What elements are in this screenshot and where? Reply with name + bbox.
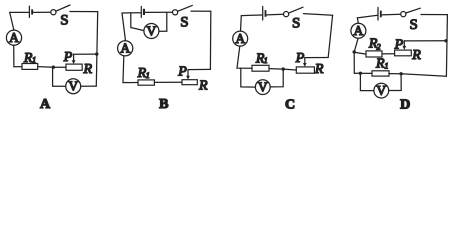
svg-text:R: R bbox=[314, 62, 324, 77]
slider arrow P (circuit A) bbox=[72, 54, 76, 64]
rheostat R (circuit D) bbox=[395, 50, 412, 56]
wire D R2 to left wire bbox=[354, 52, 366, 54]
node A bottom junction bbox=[52, 66, 55, 69]
wire D rheostat to R2 bbox=[382, 53, 395, 55]
switch S (circuit A) bbox=[51, 5, 70, 15]
wire A ammeter to top-left corner bbox=[10, 12, 14, 30]
switch S (circuit B) bbox=[173, 5, 193, 15]
node A right junction bbox=[95, 52, 98, 55]
ammeter A (circuit D) bbox=[351, 23, 366, 38]
svg-text:S: S bbox=[180, 14, 188, 30]
svg-text:R: R bbox=[198, 78, 208, 93]
wire C voltmeter branch left bbox=[241, 68, 256, 87]
wire B voltmeter branch left bbox=[131, 13, 144, 31]
wire B switch to top-right corner bbox=[191, 10, 211, 12]
switch S (circuit C) bbox=[284, 7, 304, 17]
wire B slider tap bbox=[188, 68, 210, 70]
wire D battery to switch bbox=[382, 13, 401, 16]
slider arrow P (circuit C) bbox=[303, 58, 307, 67]
battery B bbox=[141, 7, 145, 18]
wire C switch to top-right corner bbox=[304, 14, 333, 16]
switch S (circuit D) bbox=[401, 8, 421, 17]
wire A switch to top-right corner bbox=[70, 11, 98, 13]
resistor R1 (circuit B) bbox=[138, 80, 154, 85]
rheostat R (circuit B) bbox=[182, 80, 197, 85]
node C junction bbox=[282, 67, 285, 70]
wire C right side bbox=[328, 15, 332, 57]
wire D voltmeter branch right bbox=[389, 74, 402, 91]
svg-text:R: R bbox=[83, 62, 93, 77]
wire C slider tap bbox=[305, 57, 328, 59]
node D voltmeter right junction bbox=[399, 72, 402, 75]
resistor R1 (circuit C) bbox=[252, 65, 269, 71]
svg-text:A: A bbox=[235, 31, 245, 46]
label R2 (circuit D) bbox=[368, 36, 381, 51]
wire A top-left to battery bbox=[10, 11, 29, 13]
svg-text:V: V bbox=[68, 79, 78, 94]
wire B ammeter to top-left corner bbox=[122, 13, 126, 41]
wire A voltmeter to right wire bbox=[81, 85, 97, 87]
slider arrow P (circuit D) bbox=[402, 41, 406, 50]
node D left junction bbox=[353, 50, 356, 53]
rheostat R (circuit C) bbox=[296, 67, 314, 73]
wire A R1 to bottom-left corner bbox=[14, 45, 22, 66]
svg-text:C: C bbox=[285, 97, 295, 111]
wire D bottom row left bbox=[354, 72, 372, 74]
rheostat R (circuit A) bbox=[66, 64, 82, 70]
svg-text:R: R bbox=[411, 48, 421, 63]
node D voltmeter left junction bbox=[359, 72, 362, 75]
label R1 (circuit C) bbox=[255, 51, 268, 66]
svg-text:A: A bbox=[120, 41, 130, 56]
wire C ammeter to top-left corner bbox=[240, 16, 243, 32]
svg-text:P: P bbox=[63, 50, 73, 65]
wire D slider tap bbox=[404, 40, 446, 42]
svg-text:1: 1 bbox=[385, 62, 389, 71]
wire D bottom row right bbox=[389, 74, 446, 77]
svg-text:A: A bbox=[354, 23, 364, 38]
battery C bbox=[263, 7, 267, 21]
resistor R1 (circuit D) bbox=[372, 71, 389, 76]
svg-text:P: P bbox=[177, 64, 187, 79]
svg-text:2: 2 bbox=[377, 43, 381, 52]
wire C battery to switch bbox=[266, 13, 283, 16]
wire A junction to R1 bbox=[38, 66, 54, 69]
wire B battery to switch bbox=[145, 11, 173, 13]
node D tap junction bbox=[444, 39, 447, 42]
wire D switch to top-right corner bbox=[421, 14, 448, 16]
ammeter A (circuit B) bbox=[118, 41, 133, 56]
wire A voltmeter branch left bbox=[53, 67, 66, 86]
ammeter A (circuit C) bbox=[233, 31, 248, 46]
voltmeter V (circuit B) bbox=[144, 24, 159, 39]
wire A right side bbox=[96, 12, 97, 87]
resistor R2 (circuit D) bbox=[366, 51, 382, 57]
wire A battery to switch bbox=[33, 11, 51, 13]
wire B right side bbox=[209, 11, 211, 69]
wire C R1 to bottom-left corner bbox=[237, 46, 252, 68]
wire A rheostat to junction bbox=[53, 66, 66, 68]
wire C junction to R1 bbox=[269, 68, 283, 71]
svg-text:P: P bbox=[295, 51, 305, 66]
battery A bbox=[29, 6, 33, 17]
resistor R1 (circuit A) bbox=[22, 64, 38, 70]
wire D top-left corner to ammeter bbox=[357, 18, 358, 23]
svg-text:D: D bbox=[400, 97, 410, 111]
voltmeter V (circuit A) bbox=[66, 79, 81, 94]
wire C top-left to battery bbox=[241, 14, 262, 17]
svg-text:A: A bbox=[9, 30, 19, 45]
wire D voltmeter branch left bbox=[360, 73, 374, 90]
svg-text:V: V bbox=[147, 23, 157, 38]
wire B top-left to battery bbox=[122, 12, 141, 14]
wire C rheostat to junction bbox=[283, 68, 296, 71]
wire B rheostat to R1 bbox=[154, 81, 182, 83]
battery D bbox=[378, 7, 382, 20]
svg-text:1: 1 bbox=[32, 56, 36, 65]
wire B R1 to bottom-left corner bbox=[123, 56, 138, 83]
svg-text:V: V bbox=[376, 83, 386, 98]
svg-text:V: V bbox=[258, 79, 268, 94]
voltmeter V (circuit C) bbox=[255, 80, 270, 95]
svg-text:A: A bbox=[40, 97, 51, 111]
svg-text:S: S bbox=[60, 12, 68, 28]
svg-text:S: S bbox=[410, 17, 418, 33]
slider arrow P (circuit B) bbox=[186, 70, 190, 80]
label R1 (circuit D) bbox=[375, 57, 389, 72]
wire D top-left to battery bbox=[357, 15, 377, 18]
label R1 (circuit A) bbox=[23, 51, 36, 66]
wire D left side bbox=[354, 38, 358, 73]
wire A slider tap bbox=[74, 53, 97, 55]
svg-text:S: S bbox=[292, 15, 300, 31]
wire D right side bbox=[446, 15, 447, 77]
svg-text:1: 1 bbox=[146, 71, 150, 80]
ammeter A (circuit A) bbox=[6, 30, 21, 45]
svg-text:1: 1 bbox=[264, 56, 268, 65]
svg-text:B: B bbox=[159, 97, 168, 111]
wire B voltmeter branch right bbox=[159, 13, 167, 32]
wire C voltmeter branch right bbox=[270, 69, 283, 87]
svg-text:R: R bbox=[375, 57, 385, 72]
voltmeter V (circuit D) bbox=[374, 83, 389, 98]
label R1 (circuit B) bbox=[137, 66, 150, 81]
